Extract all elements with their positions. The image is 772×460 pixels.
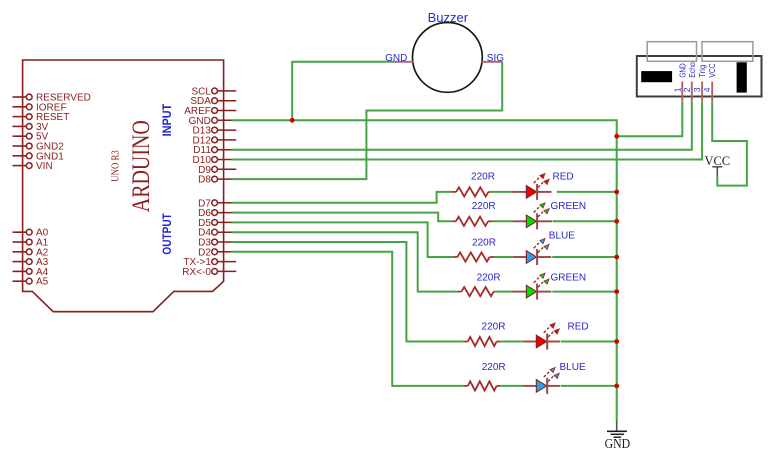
resistor R1 value label 220R — [471, 171, 495, 182]
resistor R6 value label 220R — [482, 362, 506, 373]
svg-text:RX<-0: RX<-0 — [182, 267, 211, 278]
svg-text:220R: 220R — [482, 321, 506, 332]
sensor pin 3 Trig label — [697, 65, 707, 78]
sensor pin 4 VCC label — [707, 63, 717, 77]
Arduino pin RX<-0 — [182, 267, 236, 278]
resistor R4 value label 220R — [477, 273, 501, 284]
resistor R2 220R — [452, 217, 493, 226]
wire LED D5 to ground bus — [561, 341, 617, 343]
wire Arduino D4 to R4 — [232, 232, 458, 291]
Arduino pin RESERVED — [13, 93, 91, 104]
sensor pin number 4 — [702, 87, 712, 92]
svg-text:Buzzer: Buzzer — [428, 10, 469, 25]
resistor R6 220R — [464, 381, 501, 390]
sensor pin 4 VCC stub — [711, 82, 713, 102]
Arduino pin A4 — [13, 267, 49, 278]
Arduino pin GND — [189, 116, 237, 127]
sensor crystal block — [641, 71, 672, 82]
Arduino pin GND1 — [13, 151, 65, 162]
svg-text:2: 2 — [682, 87, 692, 92]
Arduino pin 5V — [13, 132, 49, 143]
svg-text:INPUT: INPUT — [160, 103, 174, 136]
LED D2 colour label GREEN — [551, 201, 587, 212]
LED D6 colour label BLUE — [560, 362, 586, 373]
svg-text:220R: 220R — [482, 362, 506, 373]
wire R4 to LED D4 — [496, 291, 513, 293]
wire Arduino D11 to sensor Echo — [232, 101, 692, 150]
svg-text:GND: GND — [677, 63, 687, 77]
wire R1 to LED D1 — [491, 191, 512, 193]
wire Arduino D3 to R5 — [232, 242, 464, 342]
wire R2 to LED D2 — [493, 220, 513, 222]
sensor pin 1 GND label — [677, 63, 687, 77]
junction node LED D1 on ground bus — [614, 190, 619, 195]
Arduino pin D8 — [198, 175, 236, 186]
svg-text:Trig: Trig — [697, 65, 707, 78]
LED D5 colour label RED — [568, 322, 589, 333]
sensor transducer left outline — [647, 42, 696, 62]
wire LED D4 to ground bus — [552, 291, 616, 293]
Arduino pin A5 — [13, 277, 49, 288]
LED D1 colour label RED — [553, 172, 574, 183]
Arduino pin D10 — [193, 155, 237, 166]
Arduino pin D6 — [198, 208, 236, 219]
resistor R5 value label 220R — [482, 321, 506, 332]
wire Arduino GND to ground bus (net GND) — [232, 120, 617, 421]
Arduino UNO R3 U1 body outline — [23, 60, 224, 312]
Arduino pin SCL — [191, 86, 236, 97]
svg-text:A5: A5 — [36, 277, 49, 288]
sensor pin 3 Trig stub — [701, 82, 703, 102]
svg-text:VIN: VIN — [36, 161, 53, 172]
svg-text:RED: RED — [568, 322, 589, 333]
Arduino pin D7 — [198, 198, 236, 209]
resistor R4 220R — [458, 287, 496, 296]
Arduino pin D9 — [198, 165, 236, 176]
Arduino pin D4 — [198, 228, 236, 239]
junction node LED D3 on ground bus — [614, 255, 619, 260]
VCC power symbol — [704, 154, 730, 177]
svg-text:SIG: SIG — [487, 53, 504, 64]
Arduino pin A0 — [13, 228, 49, 239]
svg-text:VCC: VCC — [704, 154, 730, 168]
sensor pin 1 GND stub — [681, 82, 683, 102]
buzzer BZ1 circle — [413, 23, 483, 93]
resistor R3 value label 220R — [472, 238, 496, 249]
wire LED D1 to ground bus — [557, 191, 617, 193]
ultrasonic sensor U2 body — [637, 56, 762, 97]
resistor R2 value label 220R — [472, 201, 496, 212]
Arduino pin D3 — [198, 238, 236, 249]
Arduino pin SDA — [190, 96, 236, 107]
LED D3 (BLUE) — [513, 239, 551, 265]
resistor R5 220R — [464, 337, 501, 346]
svg-text:OUTPUT: OUTPUT — [160, 213, 174, 255]
Arduino label OUTPUT — [160, 213, 174, 255]
sensor pin number 2 — [682, 87, 692, 92]
junction node LED D2 on ground bus — [614, 219, 619, 224]
Arduino pin RESET — [13, 112, 70, 123]
Arduino pin VIN — [13, 161, 53, 172]
LED D4 colour label GREEN — [551, 273, 587, 284]
wire Arduino D7 to R1 — [232, 192, 452, 203]
wire sensor GND to ground bus — [617, 101, 683, 136]
buzzer pin SIG stub — [482, 61, 503, 63]
wire Arduino D5 to R3 — [232, 222, 454, 257]
buzzer BZ1 label — [428, 10, 469, 25]
svg-text:220R: 220R — [472, 238, 496, 249]
svg-text:220R: 220R — [471, 171, 495, 182]
svg-text:D8: D8 — [198, 175, 211, 186]
junction node buzzer GND on GND wire — [290, 118, 295, 123]
svg-text:4: 4 — [702, 87, 712, 92]
resistor R1 220R — [452, 187, 491, 196]
svg-text:BLUE: BLUE — [549, 231, 575, 242]
buzzer pin GND stub — [395, 61, 414, 63]
wire buzzer GND branch — [292, 62, 394, 121]
Arduino pin D5 — [198, 218, 236, 229]
wire Arduino D6 to R2 — [232, 213, 452, 222]
sensor pin number 3 — [692, 87, 702, 92]
svg-text:Echo: Echo — [687, 62, 697, 78]
sensor transducer right outline — [702, 42, 753, 62]
wire buzzer SIG to Arduino D8 — [232, 62, 503, 179]
Arduino pin GND2 — [13, 142, 65, 153]
Arduino pin A3 — [13, 257, 49, 268]
svg-text:ARDUINO: ARDUINO — [128, 120, 155, 212]
wire R5 to LED D5 — [500, 341, 523, 343]
LED D4 (GREEN) — [513, 273, 552, 299]
wire Arduino D10 to sensor Trig — [232, 101, 703, 159]
wire sensor VCC to VCC symbol — [712, 101, 747, 185]
junction node LED D4 on ground bus — [614, 289, 619, 294]
junction node LED D5 on ground bus — [614, 339, 619, 344]
wire R6 to LED D6 — [500, 385, 523, 387]
svg-text:VCC: VCC — [707, 63, 717, 77]
Arduino pin 3V — [13, 122, 49, 133]
buzzer pin GND label — [385, 53, 407, 64]
LED D2 (GREEN) — [513, 203, 552, 229]
junction node LED D6 on ground bus — [614, 384, 619, 389]
sensor pin number 1 — [672, 87, 682, 92]
svg-text:GREEN: GREEN — [551, 273, 587, 284]
Arduino label INPUT — [160, 103, 174, 136]
wire LED D6 to ground bus — [561, 385, 617, 387]
Arduino pin D13 — [193, 126, 237, 137]
LED D5 (RED) — [523, 323, 561, 349]
svg-text:3: 3 — [692, 87, 702, 92]
Arduino pin IOREF — [13, 102, 67, 113]
LED D6 (BLUE) — [523, 368, 561, 394]
Arduino pin TX->1 — [183, 257, 236, 268]
LED D1 (RED) — [512, 174, 551, 200]
junction node sensor GND on ground bus — [614, 134, 619, 139]
Arduino pin A1 — [13, 238, 49, 249]
wire Arduino D2 to R6 — [232, 252, 464, 386]
Arduino pin D2 — [198, 247, 236, 258]
svg-text:GREEN: GREEN — [551, 201, 587, 212]
sensor pin 2 Echo label — [687, 62, 697, 78]
Arduino pin D12 — [193, 135, 237, 146]
wire LED D3 to ground bus — [552, 256, 617, 258]
svg-text:GND: GND — [385, 53, 407, 64]
LED D3 colour label BLUE — [549, 231, 575, 242]
Arduino pin A2 — [13, 247, 49, 258]
svg-text:BLUE: BLUE — [560, 362, 586, 373]
svg-text:220R: 220R — [477, 273, 501, 284]
wire LED D2 to ground bus — [553, 220, 617, 222]
svg-text:UNO R3: UNO R3 — [111, 150, 122, 182]
svg-text:1: 1 — [672, 87, 682, 92]
sensor IC block — [737, 62, 747, 92]
svg-text:GND: GND — [605, 436, 631, 451]
Arduino pin AREF — [184, 106, 236, 117]
ground symbol GND — [605, 421, 631, 451]
Arduino label UNO R3 — [111, 150, 122, 182]
Arduino pin D11 — [193, 145, 236, 156]
svg-text:220R: 220R — [472, 201, 496, 212]
wire R3 to LED D3 — [494, 256, 513, 258]
Arduino label ARDUINO — [128, 120, 155, 212]
sensor pin 2 Echo stub — [691, 82, 693, 102]
buzzer pin SIG label — [487, 53, 504, 64]
svg-text:RED: RED — [553, 172, 574, 183]
resistor R3 220R — [453, 252, 494, 261]
